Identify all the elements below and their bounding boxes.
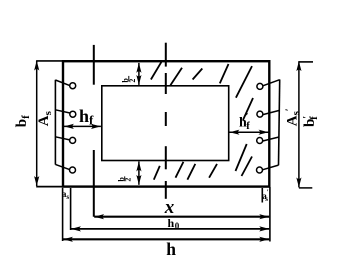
rebar circles A_s' [257, 83, 263, 173]
b_f' top tick [299, 61, 313, 63]
inner hole outline [102, 86, 229, 161]
hatch strokes bottom flange [154, 162, 217, 180]
extension line right edge down [269, 187, 271, 242]
dimension h0 line [71, 228, 269, 230]
dimension b_f' vertical line with arrows [298, 61, 300, 187]
small dimension b/2 top arrow [138, 63, 140, 85]
svg-text:h0: h0 [168, 216, 180, 231]
leader line for A_s' [279, 80, 280, 166]
svg-text:f: f [246, 121, 250, 132]
svg-text:hf: hf [79, 106, 94, 128]
outer section outline [63, 61, 269, 186]
hatch strokes right flange [236, 66, 254, 176]
svg-text:b′f: b′f [302, 116, 320, 127]
b_f top extension line [36, 60, 63, 62]
svg-text:2: 2 [124, 178, 133, 182]
fraction bar b/2 top [128, 76, 130, 82]
fraction bar b/2 bottom [124, 176, 126, 181]
extension line right rebar down (a_s') [261, 188, 263, 203]
svg-text:As: As [36, 110, 54, 126]
small dimension b/2 bottom arrow [138, 162, 140, 185]
b_f' bottom tick [299, 187, 312, 189]
leader line for A_s [54, 80, 56, 165]
svg-text:a′s: a′s [262, 188, 269, 203]
rebar circles A_s [70, 83, 76, 173]
extension line left rebar down [70, 188, 72, 230]
bottom edge extension to b_f line [36, 186, 63, 188]
ticks from leader to rebar circles right [262, 80, 279, 170]
dimension b_f vertical line with arrows [36, 61, 38, 186]
vertical centerline (dash-dot) [165, 43, 167, 199]
dimension h line [63, 238, 269, 240]
svg-text:′: ′ [246, 112, 249, 122]
dimension h_f arrow [64, 125, 101, 127]
svg-text:h: h [166, 239, 176, 259]
hatch strokes top flange [151, 62, 229, 85]
extension line left edge down [62, 188, 64, 241]
svg-text:x: x [164, 197, 175, 218]
dimension x line [94, 216, 269, 218]
neutral axis line (compression zone boundary) [93, 45, 95, 217]
dimension h_f' arrow [230, 131, 269, 133]
svg-text:2: 2 [128, 79, 137, 83]
svg-text:bf: bf [14, 115, 32, 127]
ticks from leader to rebar circles [55, 80, 70, 170]
